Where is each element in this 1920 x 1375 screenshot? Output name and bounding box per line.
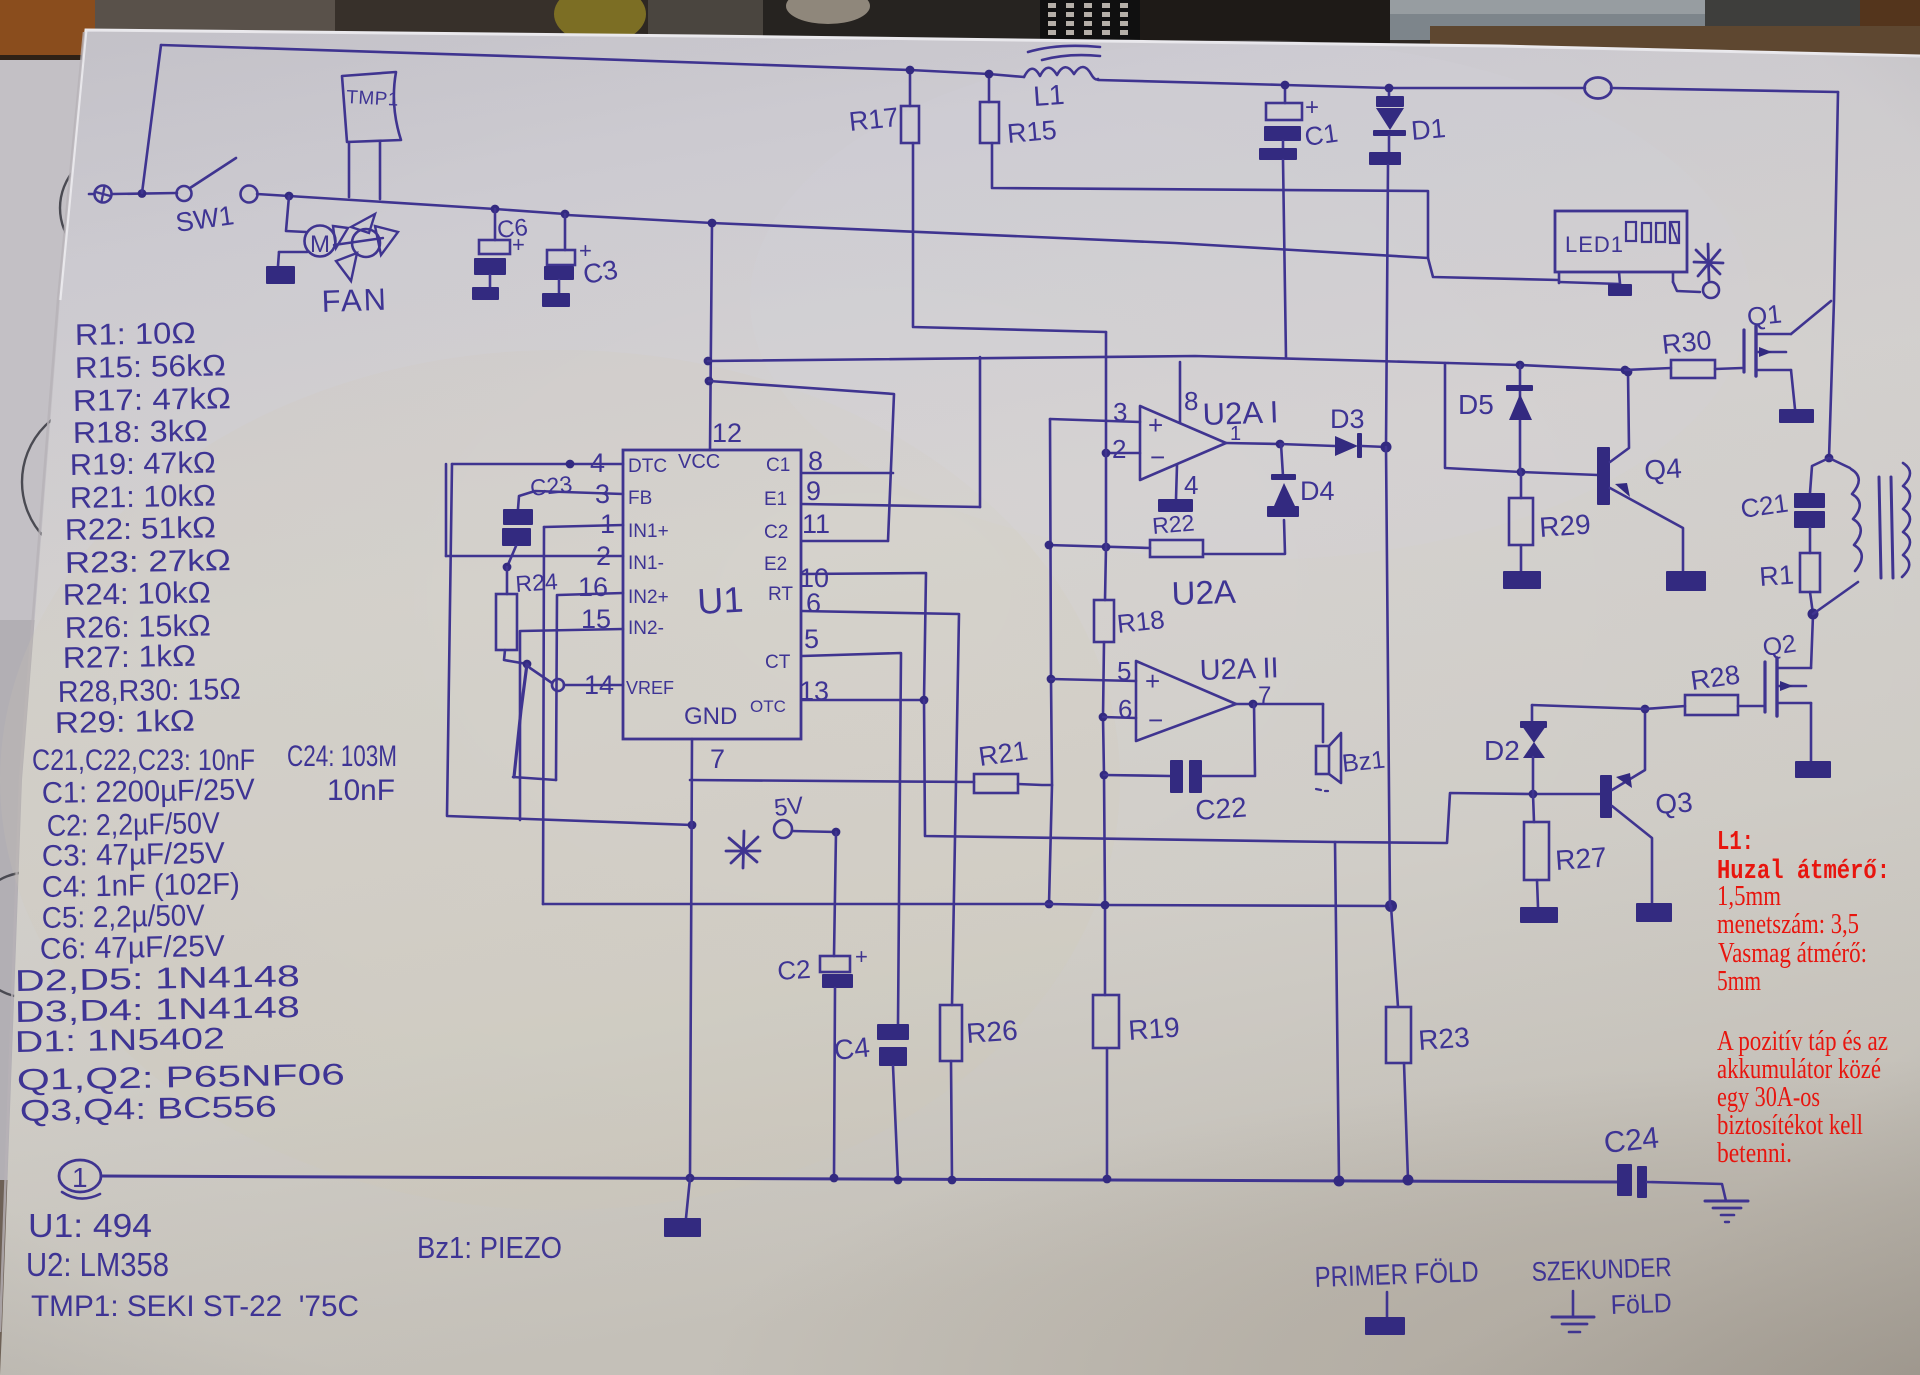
resistor R24 <box>496 594 517 650</box>
transistor Q1 gate and channel bars <box>1742 330 1745 372</box>
Q2 source to ground blob <box>1810 703 1813 761</box>
svg-text:C21,C22,C23: 10nF: C21,C22,C23: 10nF <box>32 744 255 777</box>
svg-text:+: + <box>1305 94 1319 121</box>
svg-text:5V: 5V <box>773 792 805 822</box>
wire VREF pin 14 <box>564 684 623 687</box>
thermostat TMP1 box <box>342 72 401 142</box>
wire R28 node down to D2 <box>1529 790 1538 799</box>
wire IN2- pin 15 down <box>521 629 623 631</box>
main wire after SW1 with junctions <box>257 194 565 214</box>
svg-text:C6: 47µF/25V: C6: 47µF/25V <box>40 930 226 966</box>
wire node to R27 <box>1533 794 1534 822</box>
svg-text:L1:: L1: <box>1717 828 1754 858</box>
wire right side vertical rail <box>1829 92 1838 458</box>
svg-text:DTC: DTC <box>628 456 667 477</box>
capacitor C2 <box>820 956 850 972</box>
wire to R30 <box>1625 368 1671 370</box>
svg-text:R19: 47kΩ: R19: 47kΩ <box>70 446 217 482</box>
resistor R30 <box>1671 360 1715 378</box>
wire DTC pin 4 <box>452 463 623 466</box>
svg-text:12: 12 <box>712 418 742 448</box>
svg-text:FöLD: FöLD <box>1610 1288 1672 1320</box>
wire E2 pin 10 down <box>802 573 926 700</box>
svg-text:C2: C2 <box>764 522 788 543</box>
wire R19 to ground bus <box>1106 1048 1109 1179</box>
diode D5 <box>1506 385 1533 391</box>
wire U2AI output <box>1226 443 1280 444</box>
wire Q2 drain up <box>1811 615 1813 668</box>
transformer secondary winding <box>1902 463 1910 577</box>
U2AI pin 4 ground <box>1176 465 1177 499</box>
5V terminal circle <box>774 820 792 838</box>
svg-text:C3: C3 <box>581 254 620 290</box>
wire C1 pin 8 <box>802 472 893 475</box>
resistor R26 <box>940 1005 962 1061</box>
diode D4 <box>1271 474 1296 480</box>
svg-text:−: − <box>1148 705 1163 735</box>
wire IN1+ pin 1 <box>544 525 623 527</box>
svg-text:R23: R23 <box>1417 1021 1470 1056</box>
wire R23 to ground bus <box>1404 1063 1408 1180</box>
Q3 emitter with arrow <box>1612 709 1645 790</box>
resistor R27 <box>1524 822 1549 880</box>
capacitor C23 <box>503 509 533 525</box>
svg-text:R1: R1 <box>1758 560 1795 592</box>
wire top rail to C1 <box>1284 85 1287 103</box>
wire to R29 <box>1520 472 1523 498</box>
svg-text:U2: LM358: U2: LM358 <box>26 1246 169 1283</box>
wire under LED1 <box>1559 282 1620 284</box>
svg-text:TMP1: SEKI ST-22 '75C: TMP1: SEKI ST-22 '75C <box>31 1290 359 1323</box>
svg-text:IN1+: IN1+ <box>628 521 669 542</box>
resistor R21 <box>974 774 1018 793</box>
svg-text:R27: 1kΩ: R27: 1kΩ <box>63 640 197 675</box>
svg-text:6: 6 <box>806 588 821 618</box>
wire top rail to right corner <box>1611 88 1838 92</box>
wire C21 to R1 <box>1809 528 1812 553</box>
resistor R1 <box>1800 553 1820 592</box>
circle doodles on underlying sheet <box>60 150 176 266</box>
switch SW1 <box>177 186 192 201</box>
wire GND pin 7 column <box>690 739 692 1178</box>
earth ground symbol right <box>1705 1200 1748 1203</box>
wire U2AII pin 6 <box>1103 717 1136 718</box>
wire R24 bottom to VREF node <box>504 650 527 664</box>
wire W1 branch to Q4 base <box>1445 363 1598 475</box>
svg-text:C4: C4 <box>832 1031 871 1066</box>
wire C2 to ground bus <box>834 988 835 1178</box>
svg-text:3: 3 <box>1113 397 1127 427</box>
transistor Q4 base bar <box>1597 447 1610 505</box>
primary ground terminal circled 1 <box>59 1160 101 1192</box>
svg-text:SZEKUNDER: SZEKUNDER <box>1531 1252 1672 1287</box>
svg-text:5: 5 <box>804 624 819 654</box>
svg-text:R22: R22 <box>1151 509 1195 539</box>
svg-text:1: 1 <box>72 1162 88 1193</box>
wire C24 to earth <box>1647 1182 1726 1201</box>
wire down to C2 <box>834 832 836 956</box>
svg-text:C4: 1nF (102F): C4: 1nF (102F) <box>42 868 241 904</box>
svg-text:C24: C24 <box>1602 1121 1660 1160</box>
Q2 stubs and arrow <box>1777 667 1811 670</box>
svg-text:5: 5 <box>1117 656 1131 686</box>
svg-text:C6: C6 <box>496 214 529 244</box>
resistor R28 <box>1685 695 1738 715</box>
transistor Q2 gate and channel bars <box>1763 662 1766 712</box>
wire and junction to R17 <box>909 70 912 106</box>
svg-text:Q3,Q4: BC556: Q3,Q4: BC556 <box>20 1091 278 1128</box>
wire OTC pin 13 <box>802 699 924 702</box>
capacitor C24 <box>1617 1164 1632 1196</box>
svg-text:D1: D1 <box>1410 113 1447 146</box>
svg-text:R24: 10kΩ: R24: 10kΩ <box>63 576 212 612</box>
wire LED1 to probe circle <box>1673 282 1700 292</box>
wire C22 to output <box>1202 704 1255 776</box>
svg-text:U1: 494: U1: 494 <box>28 1207 152 1244</box>
wire to R28 <box>1645 706 1685 709</box>
svg-text:Bz1: PIEZO: Bz1: PIEZO <box>417 1230 562 1265</box>
svg-text:R24: R24 <box>515 568 559 597</box>
svg-text:R15: 56kΩ: R15: 56kΩ <box>75 349 227 385</box>
wire from plus terminal, junction <box>112 193 177 194</box>
resistor R23 <box>1386 1007 1411 1063</box>
wire rail to C21 <box>1825 454 1834 463</box>
resistor R22 <box>1150 540 1203 557</box>
resistor R18 <box>1094 600 1114 642</box>
ground blob under LED1 <box>1608 284 1632 296</box>
svg-text:R18: R18 <box>1115 604 1166 639</box>
wire C1 to lower rail <box>1283 160 1286 358</box>
ground bus junction dots <box>686 1174 695 1183</box>
wire pin 9 riser <box>979 357 982 507</box>
op-amp U2AII triangle <box>1136 661 1236 741</box>
svg-text:betenni.: betenni. <box>1717 1137 1792 1169</box>
wire node to R23 <box>1391 906 1398 1007</box>
svg-text:C1: C1 <box>1303 118 1340 152</box>
capacitor C4 <box>877 1024 909 1040</box>
svg-text:OTC: OTC <box>750 697 786 716</box>
wire C4 to ground bus <box>893 1066 898 1180</box>
wire D2 to Q3 base node <box>1532 757 1535 794</box>
svg-text:R27: R27 <box>1554 841 1607 876</box>
wire and junction to R15 <box>988 74 991 102</box>
wire junction to R24 <box>506 567 509 594</box>
wire to R19 <box>1104 905 1107 995</box>
svg-text:1: 1 <box>1230 423 1241 445</box>
svg-text:R17: 47kΩ: R17: 47kΩ <box>73 382 232 418</box>
wire R27 to ground blob <box>1537 880 1538 907</box>
wire Q1 drain to rail <box>1791 301 1831 334</box>
svg-text:LED1: LED1 <box>1565 232 1624 257</box>
svg-text:Q4: Q4 <box>1643 452 1682 486</box>
wire OTC bus branch down to ground bus <box>1335 842 1339 1181</box>
capacitor C22 <box>1170 760 1183 793</box>
connector oval on top rail <box>1585 78 1612 99</box>
svg-text:FB: FB <box>628 488 652 509</box>
svg-text:D5: D5 <box>1458 389 1494 420</box>
svg-text:Q1,Q2: P65NF06: Q1,Q2: P65NF06 <box>17 1058 346 1097</box>
svg-text:9: 9 <box>806 476 821 506</box>
wire pin 1 column down <box>543 527 544 904</box>
svg-text:E1: E1 <box>764 489 787 510</box>
capacitor C3 <box>547 250 575 265</box>
TMP1 legs <box>348 142 351 197</box>
wire W1 to D5 and R30 <box>1448 363 1625 370</box>
svg-text:Q3: Q3 <box>1654 786 1693 820</box>
Q4 emitter with arrow <box>1610 488 1683 571</box>
svg-text:6: 6 <box>1118 694 1132 724</box>
wire pin4 frame to GND column <box>447 464 692 825</box>
svg-text:C23: C23 <box>529 471 574 501</box>
svg-text:D1: 1N5402: D1: 1N5402 <box>15 1022 226 1059</box>
wire R28 node <box>1641 705 1650 714</box>
svg-text:R15: R15 <box>1006 115 1058 149</box>
svg-text:D4: D4 <box>1300 476 1335 506</box>
svg-text:VCC: VCC <box>678 451 720 473</box>
svg-text:R22: 51kΩ: R22: 51kΩ <box>65 511 217 547</box>
wire D3 node down to R23 node <box>1386 447 1390 906</box>
ground blob under Q4 <box>1666 571 1706 591</box>
svg-text:R26: R26 <box>965 1014 1018 1049</box>
wire D1 down to D3 node <box>1386 165 1388 447</box>
transistor Q3 base bar <box>1600 775 1612 818</box>
svg-text:R29: 1kΩ: R29: 1kΩ <box>55 705 196 740</box>
diode D1 <box>1376 96 1404 107</box>
svg-text:IN2+: IN2+ <box>628 587 669 608</box>
wire R26 to ground bus <box>951 1061 952 1180</box>
diode D2 <box>1522 726 1546 743</box>
wire U2AI pin 2 <box>1106 452 1140 455</box>
wire VCC pin 12 to supply <box>710 223 712 450</box>
svg-text:C22: C22 <box>1194 791 1247 826</box>
inductor L1 coil <box>1024 67 1098 79</box>
svg-text:C1: 2200µF/25V: C1: 2200µF/25V <box>42 773 256 810</box>
wire to buzzer <box>1322 704 1325 742</box>
wire top rail right part <box>1098 80 1585 88</box>
capacitor C1 <box>1266 103 1302 120</box>
svg-text:Bz1: Bz1 <box>1341 746 1387 778</box>
svg-text:13: 13 <box>799 676 829 706</box>
svg-text:U2A: U2A <box>1171 573 1236 612</box>
svg-text:D3: D3 <box>1330 404 1365 434</box>
resistor R17 <box>901 106 919 143</box>
wire noninverting input column <box>1049 419 1052 904</box>
svg-text:16: 16 <box>578 572 608 602</box>
svg-text:4: 4 <box>1184 470 1198 500</box>
Q3 collector to ground blob <box>1612 806 1652 903</box>
wire R28 to Q2 gate <box>1738 705 1763 708</box>
svg-text:+: + <box>1148 410 1163 440</box>
svg-text:R17: R17 <box>847 102 899 137</box>
wire rising to top rail <box>142 45 161 193</box>
wire to C22 <box>1104 775 1170 776</box>
wire node to transformer winding <box>1813 582 1858 614</box>
svg-text:M: M <box>310 231 330 258</box>
wire D3 to node <box>1362 446 1386 447</box>
wire IN2+ pin 16 down <box>558 593 623 595</box>
ground stub and blob below bus <box>686 1178 690 1218</box>
svg-text:IN2-: IN2- <box>628 618 664 639</box>
wire CT pin 5 to C4 <box>802 653 901 1024</box>
earth ground symbol secondary <box>1572 1291 1575 1317</box>
svg-text:10nF: 10nF <box>327 774 395 807</box>
transformer core <box>1879 477 1881 578</box>
svg-text:R30: R30 <box>1660 325 1712 360</box>
wire R21 right <box>1018 784 1052 785</box>
asterisk mark <box>1696 250 1720 274</box>
diode D3 <box>1335 436 1358 456</box>
LED1 pins <box>1558 272 1561 283</box>
svg-text:PRIMER FÖLD: PRIMER FÖLD <box>1314 1256 1479 1294</box>
wire junction to fan motor <box>286 196 306 232</box>
LED1 segment windows <box>1626 222 1636 241</box>
svg-text:8: 8 <box>1184 386 1198 416</box>
wire R1 to node <box>1810 592 1813 614</box>
wire C2 pin 11 <box>802 540 888 543</box>
wire lower bus to R23 node <box>543 904 1391 906</box>
svg-text:GND: GND <box>684 703 737 730</box>
wire output to D4 <box>1281 444 1283 476</box>
svg-text:R19: R19 <box>1127 1011 1180 1046</box>
wire R22 left <box>1048 545 1150 548</box>
wire U2AII pin 5 <box>1051 679 1136 681</box>
svg-text:C1: C1 <box>766 455 790 476</box>
wire FB pin 3 to C23 <box>518 491 623 509</box>
svg-text:R23: 27kΩ: R23: 27kΩ <box>65 544 232 580</box>
svg-text:CT: CT <box>765 652 791 673</box>
svg-text:E2: E2 <box>764 554 787 575</box>
svg-text:FAN: FAN <box>321 282 388 319</box>
wire top rail left part <box>161 45 1024 77</box>
svg-text:8: 8 <box>808 446 823 476</box>
Q4 collector to R30 node <box>1610 372 1629 462</box>
wire VREF node down <box>514 664 527 777</box>
inductor L1 core strokes <box>1028 46 1100 52</box>
svg-text:R21: 10kΩ: R21: 10kΩ <box>70 479 217 515</box>
wire GND to R21 <box>690 780 974 782</box>
ground blob under fan <box>266 266 295 284</box>
wire 5V to C2 column <box>792 831 836 832</box>
wire D4 to R22 <box>1203 520 1285 554</box>
svg-text:menetszám: 3,5: menetszám: 3,5 <box>1717 908 1859 940</box>
svg-text:Q2: Q2 <box>1761 630 1798 662</box>
capacitor C6 <box>479 240 510 254</box>
wire RT pin 6 to R26 <box>802 611 959 1005</box>
buzzer Bz1 <box>1316 746 1329 774</box>
svg-text:−: − <box>1150 442 1165 472</box>
svg-text:C24: 103M: C24: 103M <box>287 740 397 773</box>
wire C23 to R24 junction <box>507 546 516 567</box>
fan blades <box>352 229 380 257</box>
svg-text:2: 2 <box>1112 434 1126 464</box>
svg-text:VREF: VREF <box>626 678 674 698</box>
wire R17 down and right <box>913 143 1106 332</box>
op-amp U2AI triangle <box>1140 406 1226 480</box>
svg-text:R29: R29 <box>1538 508 1591 543</box>
wire R29 to ground blob <box>1520 545 1523 571</box>
svg-text:Q1: Q1 <box>1745 299 1783 332</box>
wire U2AII output <box>1236 703 1323 706</box>
svg-text:5mm: 5mm <box>1717 965 1761 997</box>
resistor R19 <box>1093 995 1119 1048</box>
svg-text:U1: U1 <box>696 579 744 622</box>
wire W1 bus from VCC node <box>708 356 1448 363</box>
Q1 stubs and arrow <box>1756 333 1791 336</box>
svg-text:TMP1: TMP1 <box>346 87 400 111</box>
svg-text:RT: RT <box>768 584 793 605</box>
LED1 box <box>1555 211 1687 272</box>
wire OTC/E2 bus to Q3 base <box>924 700 1602 843</box>
wire to C3 <box>564 214 567 250</box>
wire pin8 pin11 tie <box>709 381 894 541</box>
wire to C6 <box>494 209 497 240</box>
wire E1 pin 9 <box>802 504 980 507</box>
resistor R29 <box>1509 498 1533 545</box>
svg-text:D2: D2 <box>1484 735 1520 766</box>
wire fan motor to ground <box>279 251 307 254</box>
wire FB column upper <box>1105 332 1106 600</box>
svg-text:+: + <box>855 944 868 969</box>
svg-text:R28,R30: 15Ω: R28,R30: 15Ω <box>58 673 242 709</box>
svg-text:7: 7 <box>710 744 725 774</box>
svg-text:R1: 10Ω: R1: 10Ω <box>75 317 197 352</box>
svg-text:R18: 3kΩ: R18: 3kΩ <box>73 415 209 450</box>
fan motor M circle <box>305 226 336 257</box>
junction dots on VCC line <box>704 357 713 366</box>
battery plus terminal <box>95 186 112 203</box>
svg-text:11: 11 <box>802 509 830 539</box>
Bz1 open stub <box>1316 789 1321 790</box>
wire to D3 <box>1280 444 1335 446</box>
wire vref node horizontal <box>513 777 556 780</box>
underlying paper sheet at left edge <box>0 60 95 620</box>
wire IN1- pin 2 loop <box>446 555 623 558</box>
svg-text:C2: C2 <box>776 954 811 986</box>
wire R30 to Q1 gate <box>1715 368 1742 369</box>
IC U1 box <box>623 450 801 739</box>
transformer primary winding <box>1851 469 1862 571</box>
wire top rail to D1 <box>1388 88 1391 98</box>
primary ground symbol <box>1386 1292 1389 1317</box>
svg-text:+: + <box>1145 666 1160 696</box>
resistor R15 <box>980 102 999 143</box>
wire D5 branch <box>1519 365 1522 472</box>
wire U2AI pin 3 <box>1050 419 1140 422</box>
wire ground bus <box>101 1176 1619 1182</box>
wire FB column lower <box>1103 642 1105 905</box>
asterisk near 5V <box>729 838 757 862</box>
wire rail to winding top <box>1829 458 1850 468</box>
svg-text:L1: L1 <box>1032 79 1065 112</box>
Q1 source to ground blob <box>1791 370 1795 409</box>
capacitor C21 <box>1794 493 1825 508</box>
svg-text:IN1-: IN1- <box>628 553 664 574</box>
wire R15 bottom rail to LED area <box>992 143 1428 258</box>
U2AI pin 8 stub <box>1179 362 1182 423</box>
wire supply to LED1 <box>567 215 1559 280</box>
